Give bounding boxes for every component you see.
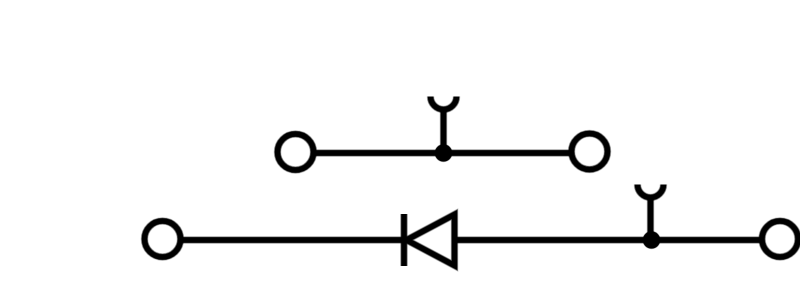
wire (bottom level, middle segment diode to junction)	[455, 237, 652, 242]
test tap stem (bottom level)	[648, 196, 653, 240]
wire (bottom level, right segment junction to terminal)	[652, 237, 763, 242]
terminal circle X2 (top-right)	[572, 134, 608, 170]
terminal circle X3 (bottom-left)	[145, 221, 181, 257]
test tap cup (top level)	[431, 97, 457, 110]
test tap stem (top level)	[441, 108, 446, 153]
wire (bottom level, left segment to diode)	[181, 237, 405, 242]
junction node (bottom level)	[643, 232, 660, 249]
diode V1 triangle	[407, 215, 455, 266]
junction node (top level)	[435, 145, 452, 162]
wire (top level, left segment)	[314, 150, 444, 155]
terminal circle X1 (top-left)	[278, 134, 314, 170]
test tap cup (bottom level)	[638, 185, 664, 198]
terminal circle X4 (bottom-right)	[762, 221, 798, 257]
diode V1 cathode bar	[401, 214, 406, 266]
wire (top level, right segment)	[444, 150, 572, 155]
